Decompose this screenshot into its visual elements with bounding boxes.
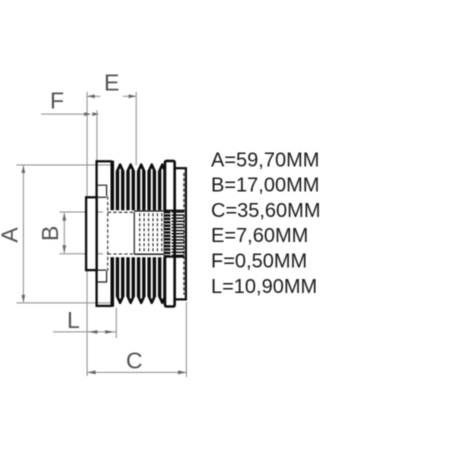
pulley rim top edge: [96, 160, 112, 162]
bore step vertical: [133, 212, 135, 254]
dimension C line: [87, 371, 186, 373]
spline band over cylinder: [172, 212, 184, 255]
hidden dashed hub edge: [107, 196, 109, 271]
inner step bottom: [98, 271, 107, 282]
inner step top: [98, 185, 107, 196]
wire: B top extension line: [60, 211, 104, 213]
wire: A bottom extension line: [17, 302, 114, 304]
svg-text:E: E: [104, 69, 119, 95]
svg-text:C: C: [126, 348, 143, 374]
pulley rim left edge: [95, 160, 97, 307]
ribbed band bottom: [111, 257, 166, 307]
hidden dashed line in cylinder: [183, 173, 185, 295]
dimension A line: [22, 166, 24, 302]
svg-text:F: F: [50, 87, 64, 113]
dimension B line: [63, 213, 65, 253]
svg-text:E=7,60MM: E=7,60MM: [211, 225, 308, 247]
bore hidden bottom line: [108, 253, 135, 255]
specification text block: [211, 149, 321, 297]
right cylinder (shaft end): [175, 168, 186, 299]
dimension L line: [53, 331, 116, 333]
svg-text:A: A: [0, 227, 23, 243]
thread dashed verticals: [140, 213, 162, 252]
thread region bottom line: [134, 253, 163, 255]
svg-text:A=59,70MM: A=59,70MM: [211, 149, 319, 171]
left collar: [86, 197, 97, 270]
wire: shared left extension line (E,F,L,C): [86, 92, 88, 376]
wire: A top extension line: [17, 164, 114, 166]
spline band over flange: [164, 210, 170, 256]
svg-text:L=10,90MM: L=10,90MM: [211, 276, 317, 298]
thread region top line: [134, 210, 163, 212]
ribbed band top: [111, 161, 166, 211]
svg-text:B=17,00MM: B=17,00MM: [211, 175, 319, 197]
pulley rim bottom edge: [96, 305, 112, 307]
wire: E right extension line: [135, 92, 137, 166]
dimension E line: [87, 95, 100, 97]
bore hidden top line: [108, 211, 135, 213]
spline band bold edges: [164, 210, 184, 212]
svg-text:F=0,50MM: F=0,50MM: [211, 251, 307, 273]
svg-text:L: L: [67, 307, 80, 333]
wire: B bottom extension line: [60, 253, 104, 255]
wire: F right extension line: [96, 110, 98, 160]
dimension F line: [41, 113, 84, 115]
wire: L right extension line: [115, 308, 117, 339]
right flange: [165, 161, 175, 307]
wire: C right extension line: [185, 302, 187, 377]
svg-text:B: B: [37, 226, 63, 241]
svg-text:C=35,60MM: C=35,60MM: [211, 200, 321, 222]
